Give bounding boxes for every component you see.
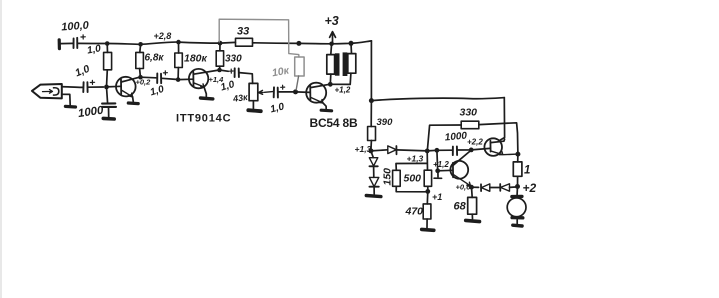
resistor R12 330 horizontal [461, 121, 479, 129]
node: rail at 10k [296, 41, 301, 46]
wire: C3 to ground [108, 107, 110, 117]
Q4 base bar [452, 163, 454, 177]
ground (Q2) [201, 96, 213, 100]
node: Q2 base [176, 77, 181, 82]
R6 lead to ground [252, 101, 254, 109]
+3 supply arrow [330, 32, 336, 44]
diode D4 [472, 186, 479, 188]
wire: node to C3 [107, 87, 108, 103]
svg-text:1000: 1000 [444, 131, 468, 144]
resistor R11 470 [426, 191, 429, 204]
capacitor C1 plus sign [81, 35, 85, 39]
node: rail / R 180k top [176, 40, 181, 45]
node: +2 [515, 184, 520, 189]
Q2 emitter with arrow [194, 83, 205, 87]
ground (R6) [248, 110, 260, 111]
wire: down to Q5 collector [499, 98, 504, 141]
diode D2 vertical [371, 151, 373, 158]
Q2 base wire [178, 78, 193, 80]
wire: Q1 emitter to ground [132, 97, 135, 102]
transistor Q3 circle [306, 83, 326, 103]
R3 leads [177, 42, 180, 79]
R10 bottom lead [427, 186, 429, 191]
capacitor C2 plus [90, 80, 94, 84]
transformer left coil [327, 55, 335, 75]
resistor R5 33 body (series in rail) [236, 38, 253, 46]
ground (Q3) [321, 109, 331, 113]
resistor R13 1 [517, 154, 519, 162]
capacitor C1 100,0 plates [74, 38, 78, 48]
diode D1 horizontal [371, 150, 388, 151]
R12 right lead to emitter rail [479, 123, 518, 154]
resistor R8 390 [370, 101, 372, 127]
wire: D3 to ground [373, 187, 375, 194]
resistor R14 68 [471, 187, 474, 197]
svg-text:+1,2: +1,2 [433, 160, 449, 169]
head arrow [43, 90, 53, 94]
wire: left coil top to rail [330, 44, 333, 55]
motor top brush [512, 195, 522, 199]
transistor Q4 circle [450, 161, 468, 179]
svg-text:+1,3: +1,3 [407, 154, 424, 164]
magnetic head input symbol [32, 84, 62, 98]
potentiometer R6 43k body [249, 83, 258, 100]
wire: C2 to Q1 base node [88, 86, 104, 88]
svg-text:+2,8: +2,8 [154, 31, 172, 41]
wire: top supply rail [61, 41, 372, 44]
svg-text:ITT9014C: ITT9014C [176, 113, 231, 125]
R4 leads [219, 43, 222, 70]
svg-text:470: 470 [405, 206, 424, 218]
resistor R9 150 body [393, 170, 401, 186]
wire: collector node to right coil bottom [330, 73, 351, 84]
svg-text:100,0: 100,0 [61, 20, 90, 34]
Q1 base wire [107, 85, 121, 88]
ground (C3) [103, 117, 114, 121]
motor M1 [516, 187, 518, 195]
R12 left lead down to node [427, 125, 461, 151]
R7 lower lead [296, 76, 298, 90]
wire: Q3 emitter to ground [323, 103, 326, 109]
capacitor C4 1,0 interstage [141, 76, 156, 79]
wire: rail corner down right side [370, 41, 372, 101]
Q3 collector [310, 84, 330, 87]
wire: node to C7 to Q5 base [427, 148, 490, 151]
svg-text:6,8к: 6,8к [145, 53, 165, 64]
capacitor C2 1,0 input plates [83, 82, 87, 92]
resistor R3 180k body [175, 53, 183, 68]
transformer right coil [348, 54, 356, 74]
resistor R4 330 body [216, 51, 223, 66]
R2 leads [140, 44, 141, 77]
svg-text:180к: 180к [184, 53, 208, 65]
node: Q4 emitter / +0,6 [469, 185, 474, 190]
node: R1 / input / Q1 base junction [104, 85, 109, 90]
node: Q5 emitter / R13 top [515, 152, 520, 157]
node: C7 right / Q4 collector [469, 148, 474, 153]
node: Q3 collector [328, 82, 333, 87]
node: Q2 collector [217, 68, 222, 73]
resistor R10 500 body [424, 170, 431, 186]
svg-text:68: 68 [454, 201, 467, 213]
diode D3 vertical [373, 166, 375, 177]
node: after D1 [425, 149, 430, 154]
capacitor C6 1,0 to Q3 [274, 87, 278, 97]
capacitor C7 1000 plates [453, 147, 457, 156]
resistor R1 leads [107, 44, 108, 87]
head gap arc [54, 88, 59, 95]
capacitor C5 1,0 to pot [220, 70, 229, 71]
Q3 base bar [309, 85, 311, 101]
wire: motor to ground [516, 220, 518, 224]
Q4 emitter with arrow [453, 174, 470, 186]
ground (R14) [466, 220, 480, 221]
svg-text:390: 390 [377, 117, 394, 128]
ground (R11) [422, 228, 434, 233]
svg-text:330: 330 [460, 107, 478, 119]
Q1 collector [121, 77, 140, 82]
node: Q4 base [435, 168, 440, 173]
svg-text:1: 1 [524, 165, 530, 177]
node: +1 [425, 189, 430, 194]
svg-text:+0,2: +0,2 [136, 78, 152, 87]
node: rail / R 330 top / feedback tap [218, 41, 223, 46]
svg-text:+1,2: +1,2 [335, 86, 351, 95]
Q1 emitter with arrow [121, 90, 132, 97]
svg-text:BC54 8B: BC54 8B [310, 116, 358, 130]
node: rail / +3 / left coil [329, 42, 334, 47]
R6 wiper arrow [258, 90, 272, 94]
resistor R7 10k body (light) [295, 57, 304, 76]
wire: Q4 base branch [437, 150, 453, 171]
diode D5 [499, 184, 501, 191]
ground (input) [65, 105, 75, 109]
resistor R1 1,0 body [104, 52, 112, 69]
transistor Q5 circle [484, 138, 502, 156]
svg-text:330: 330 [225, 54, 242, 65]
svg-text:+1: +1 [432, 192, 442, 202]
R9 bottom lead [396, 186, 428, 192]
Q5 base bar [489, 141, 491, 152]
node: C7 left [435, 148, 440, 153]
svg-text:+0,6: +0,6 [456, 183, 472, 192]
Q4 base stub bar [434, 171, 442, 178]
wire: Q2 emitter to ground [204, 87, 206, 97]
node: Q1 collector [138, 75, 143, 80]
node: rail / R 6,8k top [138, 42, 143, 47]
node: Q3 base [293, 89, 298, 94]
Q2 base bar [192, 72, 194, 87]
R9 top lead to node [396, 163, 427, 170]
wire: long horizontal to Q5 collector [371, 98, 504, 101]
transistor Q1 circle [116, 77, 136, 97]
node: rail / right coil top [349, 41, 354, 46]
svg-text:+3: +3 [325, 14, 339, 28]
resistor R2 6,8k body [136, 52, 144, 68]
Q2 collector [194, 70, 220, 74]
svg-text:500: 500 [404, 173, 422, 185]
feedback wire (light) from rail tap to 10k [219, 19, 299, 57]
svg-text:+2: +2 [523, 181, 537, 195]
capacitor C3 1000 electrolytic plates [102, 103, 116, 107]
capacitor C1 100,0 left terminal [58, 40, 61, 49]
Q3 emitter with arrow [310, 97, 323, 103]
Q1 base bar [120, 79, 122, 94]
wire: node down to R10 [426, 151, 428, 170]
svg-text:150: 150 [382, 168, 394, 186]
motor body circle [507, 198, 526, 217]
transformer core bar 1 [335, 53, 340, 75]
ground (motor) [513, 223, 522, 227]
node: feedback line junction [369, 98, 374, 103]
wire: right coil top to rail [350, 43, 353, 53]
motor bottom brush [512, 216, 523, 220]
wire: left coil bottom to Q3 collector node [329, 74, 332, 84]
transistor Q2 circle [189, 69, 208, 88]
svg-text:+2,2: +2,2 [467, 138, 483, 147]
Q5 collector [491, 139, 505, 142]
node: diode chain junction [368, 148, 373, 153]
svg-text:33: 33 [237, 26, 249, 38]
Q5 emitter with arrow [491, 151, 518, 155]
wire: head bottom lead to ground [62, 94, 70, 105]
svg-text:+1,3: +1,3 [355, 144, 372, 154]
ground (Q1) [128, 101, 138, 105]
Q3 base wire [296, 91, 311, 94]
node: rail / R1 top [105, 41, 110, 46]
ground (diodes) [366, 196, 381, 197]
wire: head top lead to C2 [62, 86, 83, 89]
Q4 collector [453, 150, 471, 165]
transformer core bar 2 [343, 52, 348, 76]
scan left edge [0, 0, 2, 298]
